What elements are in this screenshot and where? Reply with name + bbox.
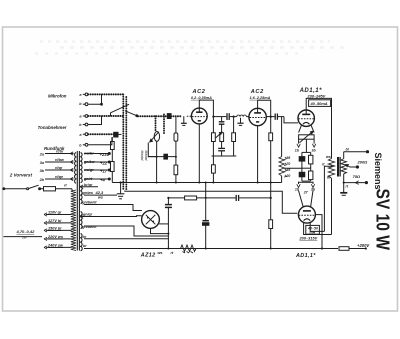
preamp tap row 1 [45, 152, 74, 155]
node bus1 x199 [198, 182, 200, 184]
secondary row7 heater az12 [84, 205, 142, 211]
input Rundfunk terminal b [83, 143, 88, 146]
node busC left [167, 197, 169, 199]
V1 anode [196, 108, 202, 112]
node V1 anode-junction [212, 116, 214, 118]
node bus1 x270 [270, 182, 272, 184]
T1 right winding mid1 [81, 187, 82, 204]
node busC right [270, 197, 272, 199]
mains tap 110V [44, 213, 72, 216]
bus1 (main return bus) [112, 182, 281, 184]
svg-text:3b: 3b [40, 169, 45, 173]
power transformer T1 core [77, 151, 79, 251]
V2 grid [250, 117, 266, 119]
svg-text:gn/gr: gn/gr [82, 213, 93, 217]
svg-text:110V gr: 110V gr [48, 211, 62, 215]
bus C (B+ rail from rectifier) [168, 197, 270, 199]
chassis ground symbol [117, 183, 125, 199]
wire V2 cathode down [257, 126, 259, 183]
resistor R-filter (in bus C) [185, 196, 197, 200]
shielded wire Tonabnehmer [88, 115, 123, 117]
node sec-tap3 [343, 182, 345, 184]
T1 left upper winding [75, 153, 76, 184]
svg-text:Tonabnehmer: Tonabnehmer [38, 125, 67, 130]
tube V5 AZ12 envelope [142, 211, 160, 229]
svg-text:a: a [80, 115, 82, 119]
T2 core [338, 157, 340, 177]
join wire bias2 and split to plugs [299, 181, 314, 184]
label V3 current boxed [309, 100, 331, 107]
svg-text:AC2: AC2 [250, 89, 264, 95]
capacitor C-coupling2 [275, 114, 277, 120]
svg-text:gn/bw: gn/bw [83, 160, 96, 164]
svg-text:+17: +17 [100, 168, 108, 173]
node riser2 busC [205, 197, 207, 199]
preamp tap row 4 [45, 177, 74, 180]
label V4 current boxed [306, 225, 320, 234]
shield drop 2 [163, 115, 165, 135]
capacitor C-bias1 (block) [299, 152, 305, 168]
preamp tap row 3 [45, 168, 74, 171]
faint bleed-through ghost rows (decorative scan artifact) [35, 42, 345, 54]
node bottom bus x168 [167, 248, 169, 250]
svg-text:42,3: 42,3 [95, 190, 105, 195]
coupling wire V1-V2 [213, 116, 236, 118]
input Rundfunk terminal a [83, 133, 88, 136]
V4 bottom pins out [304, 222, 332, 235]
resistor R-input1 [111, 137, 115, 154]
resistor R-drop [174, 157, 178, 183]
resistor R-input2 [111, 154, 115, 183]
wiper down and split [302, 139, 311, 152]
svg-text:127V bl: 127V bl [48, 219, 62, 223]
node bus1 x213 [212, 182, 214, 184]
node bus1 x257 [257, 182, 259, 184]
leads to V4 top [299, 191, 314, 207]
plug arrows to V4 [297, 184, 315, 187]
V1 cathode [198, 120, 201, 122]
ground shield at V1 grid [181, 116, 192, 125]
grid resistor squiggle V2 [237, 115, 249, 117]
speaker tap 3 (rt) [344, 181, 368, 185]
shield drop 1 [155, 116, 157, 131]
svg-text:rt/bw: rt/bw [55, 158, 65, 162]
secondary row5 br-gr [80, 185, 98, 189]
selector switch S1 blade 2 [125, 111, 138, 117]
svg-text:br/gr: br/gr [84, 183, 93, 187]
svg-text:3a: 3a [40, 161, 44, 165]
svg-text:sw: sw [22, 235, 27, 239]
secondary row6 gn-ws [84, 194, 117, 196]
svg-text:240V sw: 240V sw [47, 244, 64, 248]
secondary row9 heater [84, 226, 168, 236]
svg-text:AZ12: AZ12 [140, 252, 156, 258]
output transformer T2 primary (zigzag on riser) [328, 159, 334, 235]
pots bus [148, 156, 176, 158]
wire Tonabnehmer b [88, 116, 101, 125]
mains neutral wire [4, 236, 43, 238]
svg-text:AD1,1*: AD1,1* [295, 253, 316, 259]
svg-text:br: br [83, 244, 87, 248]
svg-text:150V bl: 150V bl [48, 227, 62, 231]
svg-text:gn/ws: gn/ws [82, 191, 93, 195]
fuse F1 [41, 187, 73, 191]
resistor R-V2anode [269, 117, 273, 249]
terminal +200V [365, 247, 367, 249]
speaker tap 1 (bl) [344, 151, 369, 153]
svg-text:rt/ge: rt/ge [55, 175, 63, 179]
svg-text:200Ω: 200Ω [357, 160, 369, 165]
svg-text:Mikrofon: Mikrofon [48, 94, 67, 99]
tube V2 AC2 envelope [249, 108, 266, 125]
join wire bias1 [302, 167, 311, 169]
svg-text:Mantel: Mantel [144, 151, 148, 161]
secondary row3 +17 [84, 169, 110, 171]
wire V2 output [266, 116, 284, 118]
input Tonabnehmer terminal b [83, 123, 88, 126]
wire V1 anode loop [199, 100, 213, 117]
V3 cathode [303, 122, 310, 124]
capacitor C-busC [236, 195, 238, 201]
filter choke zigzag on bottom bus [181, 245, 197, 253]
wire V5 filament loop [151, 228, 169, 233]
node V2 anode junction [270, 116, 272, 118]
preamp tap row 2 [45, 160, 74, 163]
potentiometer R-V1b with arrow [216, 132, 224, 148]
T1 right winding mid2 [81, 212, 82, 229]
input Tonabnehmer terminal a [83, 115, 88, 118]
svg-text:+95: +95 [285, 156, 291, 160]
T2 ground [340, 193, 347, 196]
wire divider tap to bias join [284, 167, 302, 169]
svg-text:br: br [327, 175, 331, 179]
resistor R-V1c [232, 117, 236, 156]
T2 secondary [341, 152, 347, 193]
T1 right winding upper [81, 153, 83, 183]
svg-text:2 Vorverst: 2 Vorverst [9, 173, 33, 178]
svg-text:4,70–0,42: 4,70–0,42 [16, 229, 36, 234]
mains switch S2 [3, 185, 41, 190]
capacitor C-rundfunk (block) [114, 132, 122, 137]
wire V1 cathode down [198, 124, 200, 183]
V2 cathode [256, 121, 259, 123]
resistor R-V2a lower [269, 220, 273, 229]
resistor R-V1anode [212, 117, 216, 156]
mains tap 127V [44, 221, 72, 224]
tube V3 AD1 envelope [298, 110, 314, 126]
svg-text:ws: ws [158, 251, 163, 255]
svg-text:0,2–0,35mA: 0,2–0,35mA [191, 96, 212, 100]
svg-text:Mantel: Mantel [140, 151, 144, 161]
wire middle down [156, 157, 158, 183]
node R2 at OT [331, 165, 333, 167]
capacitor C-bias2 (block) [299, 168, 305, 181]
input Mikrofon terminal b [83, 103, 88, 106]
input Mikrofon terminal a [83, 93, 88, 96]
svg-text:rt/gr: rt/gr [55, 166, 63, 170]
svg-text:+200V: +200V [357, 243, 370, 248]
node pot2-bus [175, 156, 177, 158]
bracket wire joining resistor bottoms [212, 155, 237, 157]
secondary row1 +235 [84, 153, 110, 155]
node bus1 x156 [156, 182, 158, 184]
svg-text:rt/br: rt/br [56, 150, 64, 154]
rectifier riser with filter cap [165, 198, 172, 249]
bottom bus right extension [322, 248, 338, 250]
T1 right winding lower [81, 234, 83, 251]
resistor R-bias2 [309, 168, 313, 181]
svg-text:AC2: AC2 [192, 89, 206, 95]
svg-text:ws/br: ws/br [84, 152, 94, 156]
shielded wire Rundfunk [88, 133, 113, 135]
node bus1 ground [120, 181, 122, 183]
shield trunk (vertical shielded run) [123, 94, 126, 190]
secondary row4 +4 [84, 178, 110, 180]
svg-text:75Ω: 75Ω [353, 174, 361, 179]
svg-text:200–315V: 200–315V [299, 235, 318, 240]
secondary row10 br [84, 238, 168, 240]
ground at V2 grid [237, 118, 243, 126]
V2 anode [254, 108, 261, 113]
mains tap 150V [44, 229, 72, 232]
node riser2 bottom [205, 248, 207, 250]
svg-text:220V ws: 220V ws [47, 235, 63, 239]
svg-text:+22: +22 [100, 160, 108, 165]
wire V3 anode loop to OT [306, 98, 331, 158]
wire V4 right to bus [315, 215, 322, 249]
wire Mikrofon b [88, 94, 102, 105]
svg-text:br: br [83, 235, 87, 239]
svg-text:a: a [80, 133, 82, 137]
T1 primary winding (zigzag) [71, 190, 76, 251]
svg-text:gn/bw/rt: gn/bw/rt [81, 201, 97, 205]
selector switch S1 blade 1 [111, 104, 130, 116]
wire V2 anode loop [258, 100, 271, 116]
V1 grid [192, 116, 207, 118]
wire pot1 bottom [156, 141, 158, 156]
bus B (shield/ground run) [125, 191, 297, 214]
node x270 bottom [270, 248, 272, 250]
svg-text:+4: +4 [100, 177, 105, 182]
tube V4 AD1 envelope [298, 206, 315, 223]
secondary row2 +22 [84, 161, 110, 163]
svg-text:gn/bw/rt: gn/bw/rt [81, 225, 97, 229]
electrolytic riser 2 [203, 183, 209, 249]
V3 grid [298, 118, 314, 120]
svg-text:+20: +20 [285, 174, 291, 178]
resistor R-bias1 [309, 152, 313, 168]
speaker tap 2 wiper [346, 165, 359, 168]
V5 anodes (X electrodes) [146, 215, 156, 225]
shielded wire Mikrofon [88, 93, 123, 95]
node pot1-bus [156, 156, 158, 158]
node riser2 top [205, 182, 207, 184]
resistor R-V1d lower [212, 156, 216, 183]
voltage divider zigzag [279, 117, 284, 183]
V4 cathode [304, 219, 311, 221]
svg-text:ws: ws [98, 195, 103, 199]
svg-text:SV 10 W: SV 10 W [373, 189, 393, 251]
wire Rundfunk b [88, 137, 112, 145]
hum potentiometer [299, 131, 315, 142]
svg-text:Siemens: Siemens [373, 153, 383, 190]
V3 anode [302, 110, 310, 114]
shielded wire to grid V1 [138, 115, 181, 117]
divider tap arrows [284, 159, 287, 178]
tube V1 AC2 envelope [191, 108, 207, 124]
capacitor C-bus (block) [164, 154, 168, 159]
resistor R-grid-leak (on grid line) [174, 116, 178, 156]
secondary row8 gn-gr [80, 215, 142, 219]
node bus1 x175 [175, 182, 177, 184]
svg-text:40–50mA: 40–50mA [310, 101, 328, 106]
svg-text:2b: 2b [39, 178, 45, 182]
svg-text:mA: mA [310, 230, 316, 234]
potentiometer P1 (volume) [148, 132, 159, 157]
bottom bus (ground rail) [84, 248, 337, 250]
svg-text:2a: 2a [39, 152, 44, 156]
V3 cathode pins down [299, 125, 315, 133]
svg-text:+235: +235 [100, 152, 110, 157]
resistor R-200V in bottom bus [339, 247, 365, 251]
V4 anode [303, 210, 311, 212]
V4 grid [299, 214, 316, 216]
node riser-filament [167, 233, 169, 235]
capacitor C-small [218, 148, 225, 156]
svg-text:ws/gr: ws/gr [84, 168, 94, 172]
svg-text:gn/rt: gn/rt [83, 177, 93, 181]
capacitor C-grid (block) [167, 114, 171, 119]
wire V5 cathode to riser [159, 223, 168, 225]
capacitor C-screen (hanging) [219, 117, 225, 133]
svg-text:+70: +70 [285, 162, 291, 166]
svg-text:1,6–2,25mA: 1,6–2,25mA [250, 96, 271, 100]
svg-text:ws: ws [326, 155, 331, 159]
riser R2 to OT centre tap [324, 166, 331, 231]
wire V3 grid in [284, 117, 298, 123]
mains tap 240V [44, 246, 72, 249]
mains tap 220V [44, 237, 72, 240]
node V4 bus [321, 247, 323, 249]
node coupling-R [233, 116, 235, 118]
svg-text:a: a [80, 93, 82, 97]
capacitor C-coupling1 [227, 113, 229, 120]
pot end leads with plug arrows [297, 139, 316, 147]
